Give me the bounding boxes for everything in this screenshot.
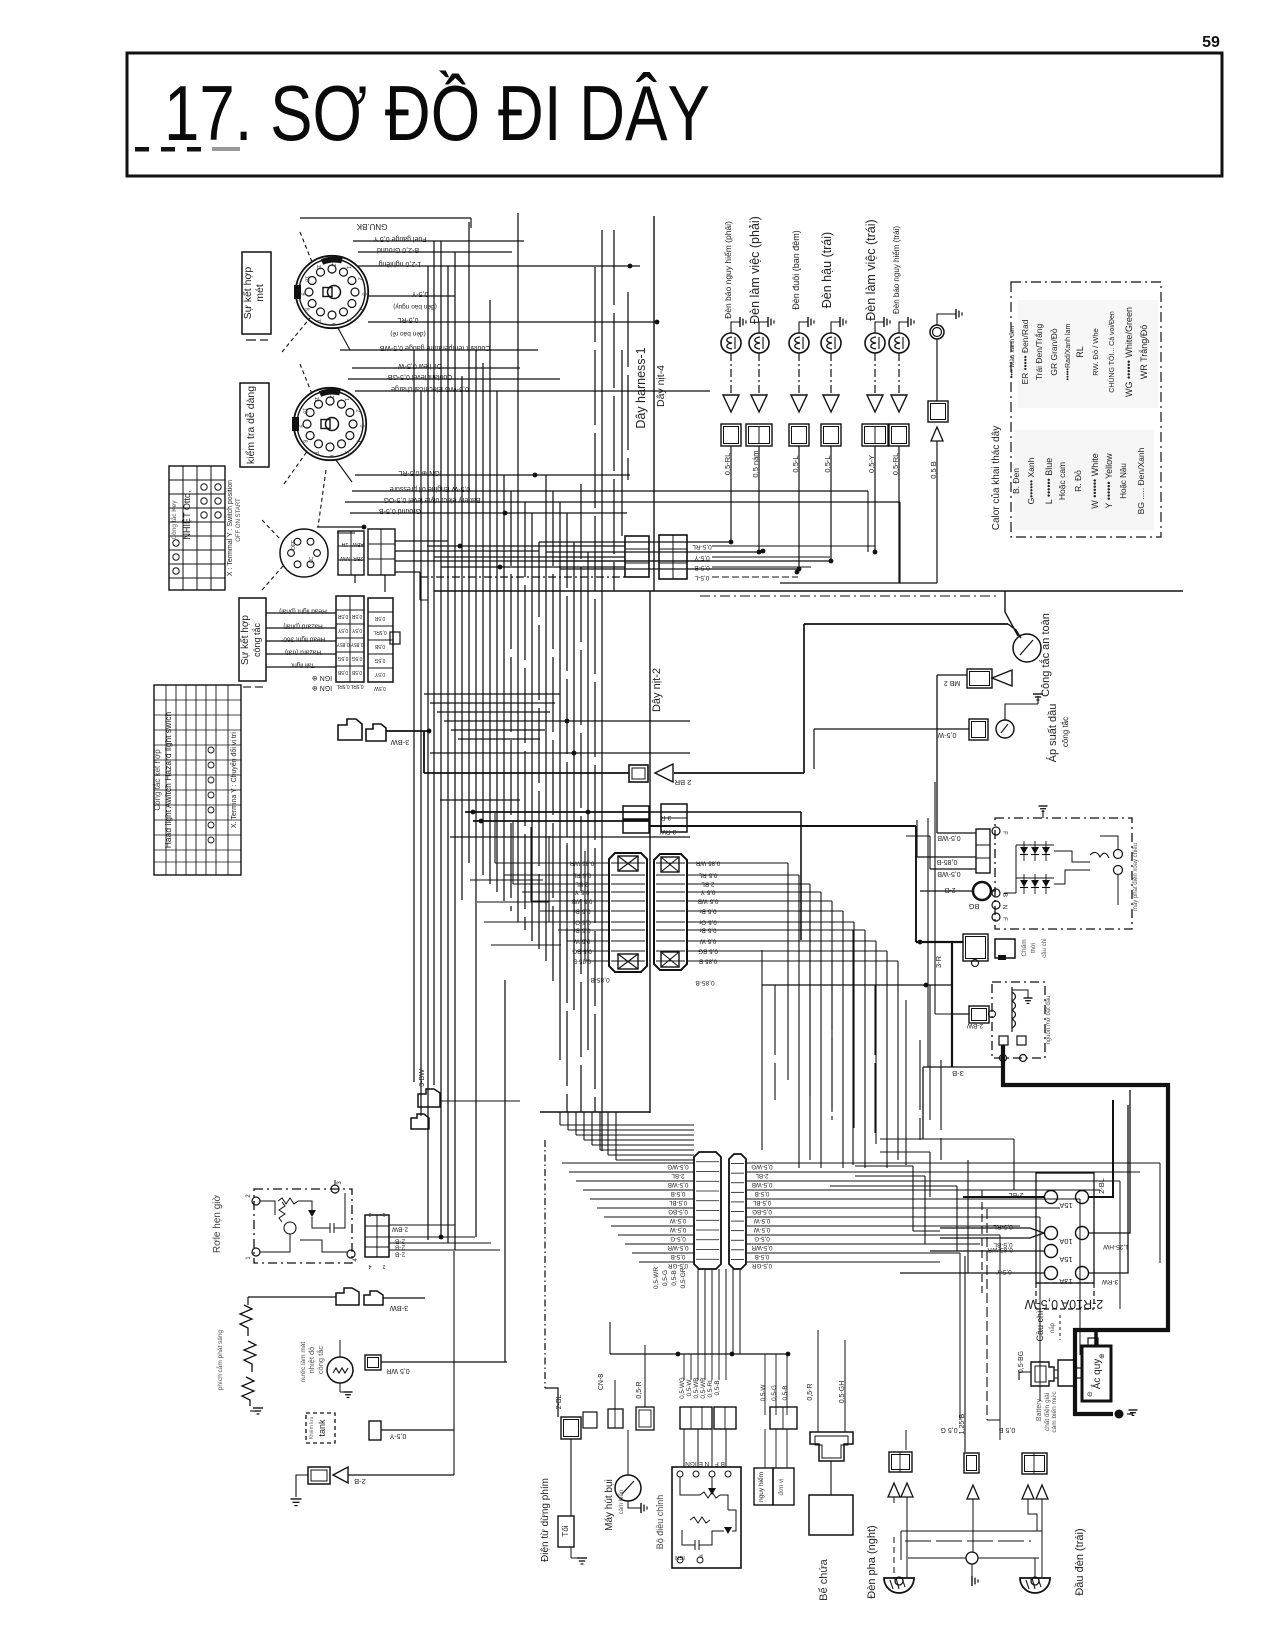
- svg-text:0,5-B: 0,5-B: [755, 1190, 770, 1197]
- svg-text:Khiêm lưu: Khiêm lưu: [309, 1416, 315, 1439]
- svg-text:Coolant level 0,5-GB: Coolant level 0,5-GB: [387, 373, 452, 380]
- svg-text:2-BW: 2-BW: [391, 1226, 408, 1233]
- svg-text:2: 2: [382, 1263, 385, 1269]
- svg-text:BG ..... Đen/Xanh: BG ..... Đen/Xanh: [1136, 447, 1146, 514]
- svg-text:Sự kết hợp: Sự kết hợp: [242, 267, 254, 320]
- svg-text:Tối: Tối: [561, 1525, 570, 1536]
- svg-text:0,5Y: 0,5Y: [374, 671, 385, 677]
- svg-text:3-B: 3-B: [952, 1069, 964, 1078]
- svg-text:Rơle hẹn giờ: Rơle hẹn giờ: [212, 1194, 223, 1253]
- svg-text:Máy hút bụi: Máy hút bụi: [604, 1479, 615, 1531]
- svg-text:nhiệt độ: nhiệt độ: [307, 1347, 316, 1374]
- svg-text:59: 59: [1202, 34, 1220, 51]
- svg-text:Đèn hậu (trái): Đèn hậu (trái): [820, 232, 834, 308]
- svg-text:Đèn pha (nght): Đèn pha (nght): [866, 1525, 878, 1598]
- svg-text:GR Gran/Đỏ: GR Gran/Đỏ: [1049, 328, 1059, 376]
- svg-text:0,5-Br: 0,5-Br: [574, 908, 591, 915]
- svg-text:7: 7: [313, 451, 319, 454]
- svg-text:2-BL: 2-BL: [755, 1172, 769, 1179]
- svg-text:0,5-Br: 0,5-Br: [574, 927, 591, 934]
- svg-text:0,5-B: 0,5-B: [714, 1380, 721, 1395]
- svg-text:Calor của khai thác dây: Calor của khai thác dây: [990, 426, 1002, 531]
- svg-text:0,5G: 0,5G: [374, 657, 385, 663]
- svg-text:0,5RL: 0,5RL: [373, 629, 387, 635]
- svg-text:0,85-B: 0,85-B: [573, 958, 591, 965]
- svg-text:0,5-WB: 0,5-WB: [693, 1378, 700, 1399]
- svg-text:⊕: ⊕: [1099, 1353, 1106, 1359]
- svg-text:đơn vị: đơn vị: [779, 1479, 785, 1496]
- svg-text:công tắc: công tắc: [316, 1346, 325, 1375]
- svg-text:RW. Đỏ / Whe: RW. Đỏ / Whe: [1091, 328, 1100, 375]
- svg-text:mét: mét: [254, 284, 266, 302]
- svg-text:Tail light: Tail light: [291, 662, 315, 669]
- svg-text:10: 10: [302, 408, 308, 414]
- svg-text:F: F: [1001, 917, 1007, 921]
- svg-text:0,5-Y: 0,5-Y: [575, 889, 590, 896]
- svg-text:0,85-B: 0,85-B: [590, 976, 609, 983]
- svg-text:tank: tank: [317, 1419, 327, 1437]
- svg-text:0,5-B: 0,5-B: [671, 1190, 686, 1197]
- svg-text:Ắc quy: Ắc quy: [1090, 1359, 1103, 1390]
- svg-text:0,5-WG: 0,5-WG: [751, 1163, 773, 1170]
- svg-text:0,5B: 0,5B: [351, 669, 362, 675]
- svg-text:0,5 B: 0,5 B: [929, 461, 938, 479]
- svg-text:0,5-Y: 0,5-Y: [411, 290, 428, 297]
- svg-text:0,5-WG: 0,5-WG: [667, 1163, 689, 1170]
- svg-text:Ground 0,5-B: Ground 0,5-B: [379, 507, 421, 514]
- svg-text:0,5-W: 0,5-W: [686, 1380, 693, 1397]
- svg-text:Head light (phải): Head light (phải): [279, 608, 327, 615]
- svg-text:0,5-WR: 0,5-WR: [667, 1244, 689, 1251]
- svg-text:Đèn đuôi (ban đêm): Đèn đuôi (ban đêm): [791, 230, 801, 310]
- svg-text:2-BL: 2-BL: [556, 1395, 563, 1410]
- svg-text:0,5-WB: 0,5-WB: [572, 898, 593, 905]
- svg-text:0,5-W: 0,5-W: [754, 1226, 771, 1233]
- svg-text:WR Trắng/Đỏ: WR Trắng/Đỏ: [1139, 325, 1149, 380]
- svg-text:Battery electrolyte level 0,5: Battery electrolyte level 0,5-OG: [383, 496, 480, 503]
- svg-text:G•••••• Xanh: G•••••• Xanh: [1026, 457, 1036, 504]
- svg-text:0,5-B: 0,5-B: [755, 1253, 770, 1260]
- svg-text:3-RW: 3-RW: [659, 828, 676, 835]
- svg-text:B: B: [1001, 893, 1007, 897]
- svg-text:1: 1: [382, 1211, 385, 1217]
- svg-text:6: 6: [330, 323, 336, 326]
- svg-text:0,85-B: 0,85-B: [936, 858, 957, 865]
- svg-text:0,5B: 0,5B: [337, 669, 348, 675]
- svg-text:0,5-W: 0,5-W: [670, 1217, 687, 1224]
- svg-text:2-BW: 2-BW: [966, 1022, 983, 1029]
- svg-text:0,5-B: 0,5-B: [671, 1253, 686, 1260]
- svg-text:Fuel gauge 0,5 Y: Fuel gauge 0,5 Y: [373, 235, 427, 242]
- svg-text:Đèn làm việc (phải): Đèn làm việc (phải): [748, 216, 762, 324]
- svg-text:3-RW: 3-RW: [1101, 1278, 1118, 1285]
- svg-text:3-BW: 3-BW: [419, 1069, 426, 1087]
- svg-text:Bộ điều chỉnh: Bộ điều chỉnh: [655, 1495, 665, 1550]
- svg-text:0,5-WR: 0,5-WR: [700, 1377, 707, 1399]
- svg-text:0,5-Y: 0,5-Y: [694, 554, 710, 561]
- svg-text:2: 2: [354, 409, 360, 412]
- svg-text:Hoặc cam: Hoặc cam: [1057, 462, 1067, 500]
- svg-text:OFF: OFF: [291, 540, 297, 550]
- svg-text:0,5-B: 0,5-B: [671, 1270, 678, 1286]
- svg-text:0,5-B: 0,5-B: [694, 564, 710, 571]
- svg-text:0,85Y: 0,85Y: [336, 641, 350, 647]
- svg-text:0,5 G: 0,5 G: [940, 1426, 957, 1433]
- svg-text:4: 4: [356, 308, 362, 311]
- svg-text:Công tắc an toàn: Công tắc an toàn: [1039, 613, 1052, 697]
- svg-text:1: 1: [345, 266, 351, 269]
- svg-text:N: N: [1001, 905, 1007, 909]
- svg-text:10: 10: [304, 276, 310, 282]
- svg-text:⊖: ⊖: [1087, 1391, 1094, 1397]
- svg-text:phích cắm phát sáng: phích cắm phát sáng: [215, 1329, 224, 1390]
- svg-text:0,5-WG Electrical charge: 0,5-WG Electrical charge: [391, 385, 469, 392]
- svg-text:•••• Màu xanh đen: •••• Màu xanh đen: [1009, 326, 1016, 378]
- svg-text:0,5-B: 0,5-B: [782, 1385, 789, 1400]
- svg-text:2-R10A 0,5-W: 2-R10A 0,5-W: [1025, 1297, 1104, 1311]
- svg-text:0,5-G: 0,5-G: [670, 1235, 686, 1242]
- svg-text:máy phát điện xoay chiều: máy phát điện xoay chiều: [1133, 843, 1139, 911]
- svg-text:0,5-Y: 0,5-Y: [389, 1432, 406, 1439]
- svg-text:Coolant temperature gauge 0,5: Coolant temperature gauge 0,5-WB: [379, 344, 490, 351]
- svg-text:Dây harness-1: Dây harness-1: [634, 347, 648, 428]
- svg-text:CN-8: CN-8: [598, 1374, 605, 1390]
- svg-text:0,5 B: 0,5 B: [999, 1426, 1016, 1433]
- svg-text:công tắc: công tắc: [1061, 717, 1070, 747]
- svg-text:Đèn báo nguy hiểm (phải): Đèn báo nguy hiểm (phải): [723, 221, 733, 319]
- svg-text:0,5RL: 0,5RL: [336, 683, 350, 689]
- svg-text:5: 5: [343, 451, 349, 454]
- svg-text:17. SƠ ĐỒ ĐI DÂY: 17. SƠ ĐỒ ĐI DÂY: [164, 69, 710, 157]
- svg-text:0,85Y: 0,85Y: [350, 641, 364, 647]
- svg-text:cảm biến mức: cảm biến mức: [1049, 1391, 1058, 1433]
- svg-text:0,5-RL: 0,5-RL: [707, 1378, 714, 1397]
- svg-text:0,5-RL: 0,5-RL: [572, 872, 591, 879]
- svg-text:3: 3: [368, 1211, 371, 1217]
- svg-text:2-BL: 2-BL: [575, 881, 589, 888]
- svg-text:7: 7: [315, 319, 321, 322]
- svg-text:1H: 1H: [341, 541, 348, 547]
- svg-text:IGN ⊕: IGN ⊕: [312, 674, 332, 681]
- svg-text:6: 6: [328, 455, 334, 458]
- svg-text:(đèn báo rẽ): (đèn báo rẽ): [390, 330, 425, 337]
- svg-text:W •••••• White: W •••••• White: [1090, 453, 1100, 508]
- svg-text:0,85-B: 0,85-B: [695, 979, 714, 986]
- svg-text:F: F: [1001, 831, 1007, 835]
- svg-text:CHÚNG TÔI... Cá voi/Đen: CHÚNG TÔI... Cá voi/Đen: [1107, 311, 1116, 393]
- svg-text:2 BR: 2 BR: [674, 778, 691, 787]
- svg-text:Head light 360°: Head light 360°: [280, 636, 325, 644]
- svg-text:Y •••••• Yellow: Y •••••• Yellow: [1104, 453, 1114, 509]
- svg-text:0,5-G: 0,5-G: [754, 1235, 770, 1242]
- svg-text:Đầu đèn (trái): Đầu đèn (trái): [1074, 1528, 1086, 1595]
- svg-text:chất điện giải: chất điện giải: [1042, 1393, 1051, 1431]
- svg-text:11: 11: [315, 265, 321, 271]
- svg-text:3-BW: 3-BW: [390, 738, 410, 747]
- svg-text:RL: RL: [1075, 346, 1085, 358]
- svg-text:công tắc: công tắc: [252, 622, 262, 657]
- svg-text:0,5-BL: 0,5-BL: [752, 1199, 771, 1206]
- svg-text:MB 2: MB 2: [944, 679, 960, 686]
- svg-text:2-BL: 2-BL: [671, 1172, 685, 1179]
- svg-text:0,5-BG: 0,5-BG: [752, 1208, 772, 1215]
- svg-text:0,5-GR: 0,5-GR: [680, 1267, 687, 1288]
- svg-text:IGN ⊕ 0,5-RL: IGN ⊕ 0,5-RL: [398, 469, 441, 476]
- svg-text:Công tắc kết hợp: Công tắc kết hợp: [153, 749, 162, 811]
- svg-text:3: 3: [361, 292, 367, 295]
- svg-text:0,5R: 0,5R: [374, 615, 385, 621]
- svg-text:0,5-L: 0,5-L: [694, 574, 709, 581]
- svg-text:Dây nịt-4: Dây nịt-4: [655, 365, 667, 407]
- svg-text:cảm biến: cảm biến: [619, 1490, 625, 1514]
- svg-text:L •••••• Blue: L •••••• Blue: [1044, 458, 1054, 505]
- svg-text:AC: AC: [309, 556, 315, 563]
- svg-text:8: 8: [302, 440, 308, 443]
- svg-text:Bể chứa: Bể chứa: [818, 1558, 830, 1600]
- svg-text:Áp suất dầu: Áp suất dầu: [1046, 704, 1059, 763]
- svg-text:Dây nịt-2: Dây nịt-2: [651, 668, 663, 712]
- svg-text:2-B: 2-B: [354, 1477, 366, 1486]
- svg-text:11: 11: [313, 397, 319, 403]
- svg-text:X : Termmal Y : Switch posi: X : Termmal Y : Switch position: [227, 480, 234, 576]
- svg-text:4: 4: [368, 1263, 371, 1269]
- svg-text:Hoặc Nâu: Hoặc Nâu: [1119, 463, 1128, 499]
- svg-text:15A: 15A: [1059, 1255, 1072, 1264]
- svg-text:Công tắc Key: Công tắc Key: [169, 500, 178, 540]
- svg-text:2: 2: [356, 277, 362, 280]
- svg-text:8: 8: [304, 308, 310, 311]
- svg-text:5: 5: [345, 319, 351, 322]
- svg-text:GNU.BK: GNU.BK: [356, 222, 387, 231]
- svg-text:0,5RL: 0,5RL: [350, 683, 364, 689]
- svg-text:B-2,0 Ground: B-2,0 Ground: [377, 246, 419, 253]
- svg-text:0,5-W: 0,5-W: [754, 1217, 771, 1224]
- svg-text:0,5B: 0,5B: [374, 643, 385, 649]
- svg-text:0,5-R: 0,5-R: [807, 1383, 814, 1400]
- svg-text:Điện từ dừng phím: Điện từ dừng phím: [540, 1478, 551, 1562]
- svg-text:0,5R: 0,5R: [351, 613, 362, 619]
- svg-text:nắp: nắp: [1049, 1322, 1056, 1333]
- svg-text:IGN ⊕: IGN ⊕: [312, 684, 332, 691]
- svg-text:2-BL: 2-BL: [1097, 1178, 1106, 1194]
- svg-text:0,5-Y: 0,5-Y: [996, 1268, 1012, 1275]
- svg-text:0,5-WB: 0,5-WB: [668, 1181, 689, 1188]
- svg-text:0,5-WB: 0,5-WB: [752, 1181, 773, 1188]
- svg-text:1,25-HW: 1,25-HW: [1102, 1243, 1129, 1250]
- svg-text:IGN: IGN: [675, 1554, 685, 1560]
- svg-text:2BR: 2BR: [353, 555, 363, 561]
- svg-text:3: 3: [359, 424, 365, 427]
- svg-text:0,5Y: 0,5Y: [351, 627, 362, 633]
- svg-text:3-R: 3-R: [660, 814, 671, 821]
- svg-text:0,5-WG: 0,5-WG: [679, 1377, 686, 1399]
- svg-text:OFF ON START: OFF ON START: [236, 498, 242, 542]
- svg-text:0,5-WB: 0,5-WB: [937, 870, 961, 877]
- svg-text:Trái Đen/Trắng: Trái Đen/Trắng: [1034, 323, 1044, 380]
- svg-text:0,5-WR: 0,5-WR: [653, 1267, 660, 1289]
- svg-text:nước làm mát: nước làm mát: [300, 1342, 307, 1383]
- svg-text:BG: BG: [968, 902, 979, 911]
- svg-text:ER ••••• Đen/Rad: ER ••••• Đen/Rad: [1020, 319, 1030, 384]
- svg-text:Hazard (trái): Hazard (trái): [285, 649, 321, 656]
- svg-text:0,5-BG: 0,5-BG: [1018, 1351, 1025, 1373]
- svg-text:0,5-RL: 0,5-RL: [397, 316, 418, 323]
- svg-text:2-BL: 2-BL: [1009, 1191, 1024, 1198]
- svg-text:0,5-WB: 0,5-WB: [937, 834, 961, 841]
- svg-text:0,5Y: 0,5Y: [337, 627, 348, 633]
- svg-text:1: 1: [343, 398, 349, 401]
- svg-text:0,5W: 0,5W: [374, 685, 386, 691]
- svg-text:0,5-R: 0,5-R: [636, 1381, 643, 1398]
- svg-text:B F I N E IGN: B F I N E IGN: [685, 1460, 725, 1467]
- svg-text:0,5-BL: 0,5-BL: [668, 1199, 687, 1206]
- svg-text:0,5-W: 0,5-W: [670, 1226, 687, 1233]
- svg-text:4: 4: [354, 440, 360, 443]
- svg-text:R. Đỏ: R. Đỏ: [1073, 470, 1083, 492]
- svg-text:0,5-Or: 0,5-Or: [573, 919, 591, 926]
- svg-text:thời: thời: [1031, 943, 1037, 953]
- svg-text:nguồn mở bật đầu: nguồn mở bật đầu: [1045, 996, 1052, 1045]
- svg-text:0,5-W: 0,5-W: [760, 1385, 767, 1402]
- svg-text:10A: 10A: [1059, 1237, 1072, 1246]
- svg-text:0,5-W: 0,5-W: [574, 938, 591, 945]
- svg-text:0,5-GR: 0,5-GR: [752, 1262, 772, 1269]
- svg-text:0,5-W Engine oil pressure: 0,5-W Engine oil pressure: [390, 485, 471, 492]
- svg-text:0,5R: 0,5R: [337, 613, 348, 619]
- svg-text:0,5-W: 0,5-W: [937, 731, 956, 738]
- svg-text:0,5-G: 0,5-G: [771, 1385, 778, 1401]
- svg-text:Oil hew 0,5-W: Oil hew 0,5-W: [398, 362, 442, 369]
- svg-text:Đèn làm việc (trái): Đèn làm việc (trái): [864, 219, 878, 320]
- svg-text:0,5G: 0,5G: [351, 655, 362, 661]
- svg-text:2-B: 2-B: [395, 1251, 405, 1258]
- svg-text:kiểm tra dễ dàng: kiểm tra dễ dàng: [244, 386, 257, 464]
- svg-text:0,5-BG: 0,5-BG: [668, 1208, 688, 1215]
- svg-text:NHIỆT Otto,: NHIỆT Otto,: [182, 491, 192, 540]
- svg-text:0,5 WR: 0,5 WR: [386, 1367, 409, 1374]
- svg-text:0,5-BG: 0,5-BG: [572, 948, 592, 955]
- svg-text:WG •••••• White/Green: WG •••••• White/Green: [1124, 307, 1134, 397]
- svg-text:Haad light Awitch Hazard light: Haad light Awitch Hazard light swich: [163, 712, 173, 849]
- svg-text:Sự kết hợp: Sự kết hợp: [239, 615, 251, 665]
- svg-text:MW: MW: [339, 555, 350, 561]
- svg-text:Đèn báo nguy hiểm (trái): Đèn báo nguy hiểm (trái): [892, 226, 901, 314]
- svg-text:15A: 15A: [1059, 1201, 1072, 1210]
- svg-text:Hazard (phải): Hazard (phải): [283, 623, 322, 630]
- svg-text:Battery: Battery: [1036, 1398, 1043, 1421]
- svg-text:0,85-WR: 0,85-WR: [569, 860, 594, 867]
- svg-text:13A: 13A: [1059, 1277, 1072, 1286]
- svg-text:X. Termina Y : Chuyển đổi vị t: X. Termina Y : Chuyển đổi vị trí: [230, 732, 238, 828]
- svg-text:Chấm: Chấm: [1019, 939, 1028, 956]
- svg-text:0,5G: 0,5G: [337, 655, 348, 661]
- svg-text:ABW: ABW: [352, 541, 364, 547]
- svg-text:2-B: 2-B: [944, 886, 955, 893]
- svg-text:3-BW: 3-BW: [389, 1304, 409, 1313]
- svg-text:nguy hiểm: nguy hiểm: [757, 1472, 765, 1502]
- svg-text:•••••Rad/Xanh lam: •••••Rad/Xanh lam: [1065, 324, 1072, 381]
- svg-text:cầu chì: cầu chì: [1042, 938, 1048, 958]
- svg-text:0,5-WR: 0,5-WR: [751, 1244, 773, 1251]
- svg-text:0,5-RL: 0,5-RL: [692, 543, 712, 550]
- svg-text:0,5-G: 0,5-G: [662, 1270, 669, 1286]
- svg-text:B. Đen: B. Đen: [1011, 468, 1021, 494]
- svg-text:(đèn báo nguy): (đèn báo nguy): [393, 303, 437, 310]
- svg-text:1-2,0 nghiêng: 1-2,0 nghiêng: [378, 260, 421, 267]
